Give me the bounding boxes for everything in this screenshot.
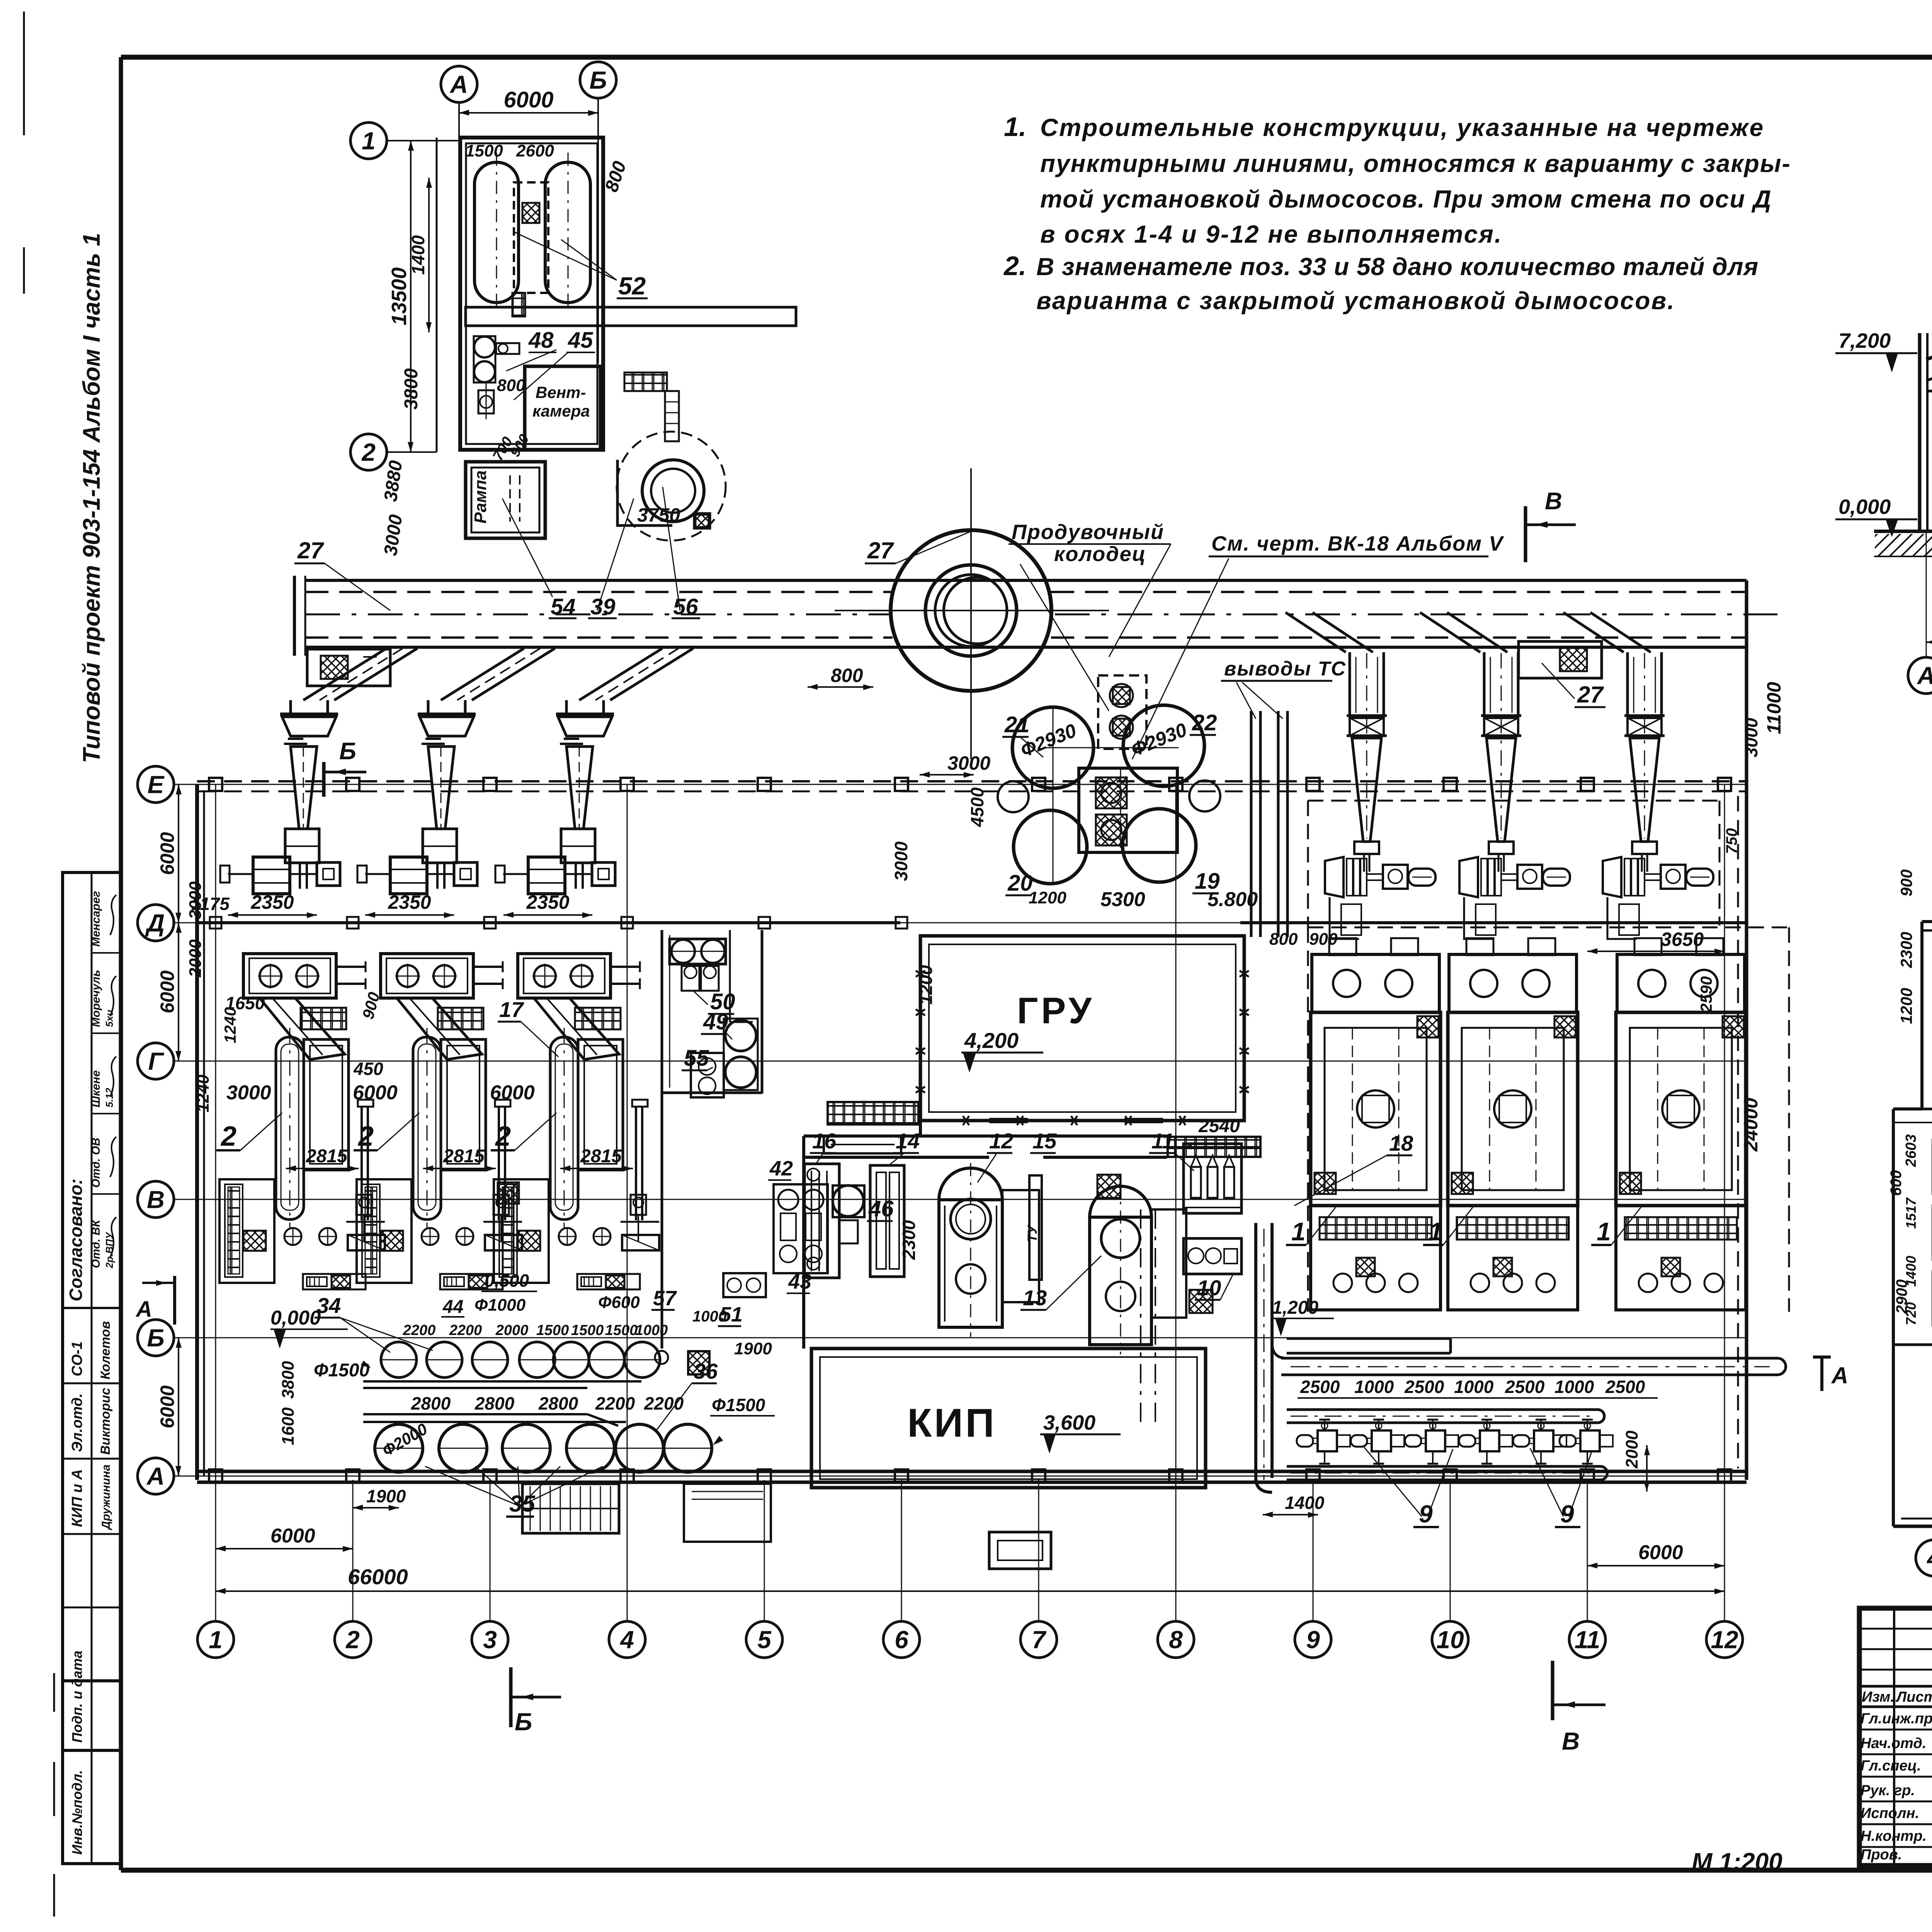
svg-text:3,600: 3,600: [1043, 1411, 1095, 1434]
svg-text:2815: 2815: [443, 1146, 485, 1167]
svg-text:6000: 6000: [353, 1082, 398, 1104]
svg-text:1500: 1500: [465, 141, 503, 160]
smoke exhauster unit: [1459, 857, 1478, 897]
section marker A right: [1813, 1355, 1831, 1359]
network pumps pos.9: [1297, 1435, 1313, 1447]
column axis circles: [197, 1621, 234, 1658]
svg-text:2300: 2300: [899, 1220, 919, 1260]
svg-text:13: 13: [1023, 1286, 1047, 1310]
svg-text:2.: 2.: [1003, 251, 1026, 281]
outer walls of boiler house: [195, 784, 199, 1480]
svg-text:55: 55: [684, 1046, 709, 1071]
bottom dim lines: [216, 1548, 353, 1549]
right cyclone collar: [1347, 714, 1387, 717]
svg-text:Строительные конструкции, указ: Строительные конструкции, указанные на ч…: [1040, 114, 1764, 141]
svg-text:Согласовано:: Согласовано:: [66, 1179, 86, 1301]
svg-text:А: А: [146, 1462, 165, 1490]
hatch bars: [828, 1102, 918, 1124]
svg-text:1600: 1600: [279, 1407, 298, 1445]
right cyclone cone: [1630, 738, 1659, 842]
svg-text:А: А: [1917, 662, 1932, 689]
svg-text:Викторис: Викторис: [98, 1388, 113, 1455]
svg-text:Колетов: Колетов: [98, 1321, 113, 1379]
furnace shaft: [276, 1037, 304, 1219]
svg-text:0,000: 0,000: [270, 1307, 321, 1329]
row axis lines: [174, 784, 1747, 785]
wall on row D: [197, 921, 900, 924]
svg-text:Д: Д: [145, 909, 165, 937]
deaerator vessel 13: [1090, 1186, 1151, 1217]
svg-text:1240: 1240: [221, 1007, 239, 1043]
hatch boxes 27 on beam: [307, 649, 390, 686]
svg-text:2: 2: [495, 1121, 511, 1152]
svg-text:КИП: КИП: [907, 1401, 997, 1446]
svg-text:27: 27: [297, 537, 324, 563]
svg-text:2350: 2350: [250, 891, 294, 913]
svg-text:См. черт. ВК-18 Альбом V: См. черт. ВК-18 Альбом V: [1211, 532, 1504, 555]
cyclone: [556, 713, 614, 716]
tanks row 2 pos.35: [375, 1424, 423, 1472]
V section marker top: [1524, 506, 1527, 562]
svg-text:2: 2: [220, 1121, 236, 1152]
cyclone support: [561, 829, 595, 863]
svg-text:Отд. ВК: Отд. ВК: [90, 1219, 102, 1268]
deaerator 22: [1123, 705, 1204, 786]
units 42 43: [774, 1184, 828, 1273]
right plan outer walls: [1920, 922, 1923, 1109]
svg-text:3000: 3000: [226, 1082, 271, 1104]
exterior stair below A wall: [522, 1484, 619, 1533]
svg-text:12: 12: [989, 1129, 1013, 1153]
svg-text:24000: 24000: [1740, 1098, 1762, 1152]
svg-text:2800: 2800: [411, 1393, 451, 1413]
svg-text:3800: 3800: [401, 368, 422, 410]
svg-text:Ф1500: Ф1500: [314, 1360, 370, 1381]
svg-text:1,200: 1,200: [1272, 1298, 1318, 1318]
svg-text:А: А: [1831, 1362, 1848, 1388]
svg-text:0,500: 0,500: [485, 1270, 529, 1291]
unit 16: [804, 1164, 839, 1278]
valve stand: [631, 1195, 646, 1215]
svg-text:13500: 13500: [388, 267, 411, 325]
svg-text:СО-1: СО-1: [69, 1341, 85, 1376]
svg-text:В знаменателе поз. 33 и 58 дан: В знаменателе поз. 33 и 58 дано количест…: [1036, 253, 1759, 281]
svg-text:4,200: 4,200: [964, 1028, 1019, 1053]
beam under tanks: [466, 307, 796, 326]
svg-text:9: 9: [1419, 1500, 1433, 1528]
svg-text:21: 21: [1004, 712, 1030, 737]
right cyclone cone: [1352, 738, 1381, 842]
svg-text:ГРУ: ГРУ: [1017, 990, 1095, 1031]
svg-text:800: 800: [1269, 930, 1298, 949]
svg-text:6000: 6000: [156, 832, 178, 875]
smoke duct chute: [472, 648, 555, 700]
side column: [498, 1106, 500, 1220]
foundation trapezoid: [1607, 897, 1637, 939]
svg-text:М 1:200: М 1:200: [1692, 1848, 1782, 1876]
unit 10: [1184, 1238, 1242, 1274]
cyclone bracket: [1354, 842, 1379, 854]
unit 11 bottles: [1184, 1144, 1242, 1213]
title block verticals left part: [1893, 1608, 1895, 1866]
svg-text:14: 14: [896, 1129, 920, 1153]
drawing border frame: [121, 55, 1932, 60]
main riser pipes: [1254, 1223, 1257, 1478]
bottom manifold: [1287, 1465, 1600, 1468]
inclined gas duct: [260, 998, 345, 1060]
svg-text:800: 800: [497, 376, 526, 395]
svg-text:Ф1000: Ф1000: [474, 1296, 526, 1315]
svg-text:39: 39: [590, 594, 616, 619]
deaerator 19: [1122, 809, 1196, 882]
svg-text:5.12: 5.12: [104, 1088, 115, 1107]
svg-text:1000: 1000: [692, 1308, 727, 1325]
deaerator room walls: [460, 138, 603, 450]
right area dashed enclosure: [1307, 927, 1309, 1312]
svg-text:2500: 2500: [1505, 1377, 1545, 1397]
svg-text:900: 900: [1309, 930, 1338, 949]
long supply pipe: [1281, 1357, 1777, 1360]
svg-text:27: 27: [1577, 682, 1604, 707]
svg-text:1: 1: [209, 1626, 223, 1653]
svg-text:Гл.спец.: Гл.спец.: [1861, 1758, 1921, 1774]
svg-text:9: 9: [1306, 1626, 1320, 1653]
svg-text:2350: 2350: [526, 891, 569, 913]
title block top small rows: [1859, 1628, 1932, 1630]
cyclone: [418, 713, 476, 716]
hatch marks corridor: [1097, 1175, 1121, 1198]
row axis circles: [138, 766, 174, 803]
section axis circles: [1908, 657, 1932, 694]
svg-text:5хи: 5хи: [104, 1010, 115, 1027]
svg-text:Н.контр.: Н.контр.: [1861, 1828, 1927, 1844]
bottom hatched strip: [577, 1274, 640, 1289]
tank walls: [363, 1380, 641, 1383]
svg-text:7,200: 7,200: [1838, 329, 1891, 352]
svg-text:1000: 1000: [1554, 1377, 1594, 1397]
boiler pumps: [422, 1228, 439, 1245]
svg-text:6000: 6000: [490, 1082, 535, 1104]
svg-text:56: 56: [673, 594, 698, 619]
svg-text:11: 11: [1151, 1129, 1174, 1153]
unit 44 cluster: [723, 1273, 766, 1297]
svg-text:1517: 1517: [1903, 1197, 1919, 1229]
svg-text:Инв.№подл.: Инв.№подл.: [69, 1770, 85, 1855]
svg-text:6000: 6000: [156, 1385, 178, 1428]
svg-text:1000: 1000: [635, 1322, 668, 1338]
cyclone: [280, 713, 338, 716]
smoke exhauster fan 39-56: [617, 432, 726, 541]
steam boilers pos.1: [1312, 954, 1439, 1012]
bottom hatched strip: [303, 1274, 366, 1289]
svg-text:10: 10: [1436, 1626, 1464, 1653]
svg-text:900: 900: [1897, 869, 1915, 896]
svg-text:3: 3: [483, 1626, 497, 1653]
svg-text:6000: 6000: [270, 1525, 315, 1547]
svg-text:42: 42: [769, 1157, 793, 1180]
svg-text:2200: 2200: [403, 1322, 436, 1338]
cyclone support: [423, 829, 457, 863]
svg-text:57: 57: [653, 1287, 677, 1310]
svg-text:Пров.: Пров.: [1861, 1847, 1902, 1863]
svg-text:2200: 2200: [644, 1393, 684, 1413]
svg-text:КИП и А: КИП и А: [69, 1469, 85, 1527]
svg-text:Г: Г: [148, 1047, 164, 1075]
svg-text:1: 1: [362, 127, 376, 155]
svg-text:Шкене: Шкене: [90, 1070, 102, 1107]
svg-text:11: 11: [1575, 1626, 1600, 1653]
svg-text:3000: 3000: [891, 841, 911, 881]
svg-text:Рук. гр.: Рук. гр.: [1861, 1782, 1915, 1799]
foundation trapezoid: [1464, 897, 1493, 939]
svg-text:2500: 2500: [1605, 1377, 1645, 1397]
stairs right of GRU: [1168, 1137, 1260, 1157]
svg-text:450: 450: [353, 1059, 383, 1079]
tank 52 left: [474, 162, 519, 303]
section marker A left: [173, 1276, 176, 1325]
svg-text:2200: 2200: [595, 1393, 635, 1413]
svg-text:Дружинина: Дружинина: [100, 1464, 112, 1531]
svg-text:43: 43: [788, 1270, 811, 1293]
svg-text:Е: Е: [148, 770, 165, 798]
svg-text:ТУ: ТУ: [1025, 1224, 1040, 1242]
svg-text:Б: Б: [589, 66, 607, 94]
svg-text:В: В: [147, 1185, 165, 1213]
deaerator 21: [1012, 707, 1094, 788]
unit 50 pumps: [670, 939, 726, 964]
svg-text:3650: 3650: [1661, 929, 1704, 950]
section walls: [1918, 333, 1922, 531]
svg-text:6: 6: [895, 1626, 908, 1653]
svg-text:2200: 2200: [449, 1322, 482, 1338]
svg-text:1000: 1000: [1454, 1377, 1494, 1397]
svg-text:2: 2: [361, 438, 376, 466]
svg-text:1200: 1200: [1897, 988, 1915, 1024]
svg-text:5: 5: [757, 1626, 772, 1653]
svg-text:3000: 3000: [947, 752, 990, 774]
svg-text:Лист: Лист: [1895, 1689, 1932, 1705]
cyclone support: [285, 829, 319, 863]
valve stand: [493, 1195, 509, 1215]
inclined gas duct: [534, 998, 619, 1060]
section marker B top: [322, 762, 326, 797]
economizer comb: [219, 1179, 274, 1283]
furnace shaft: [413, 1037, 441, 1219]
svg-text:Моречуль: Моречуль: [90, 970, 102, 1027]
svg-text:44: 44: [442, 1297, 463, 1317]
svg-text:12: 12: [1711, 1626, 1738, 1653]
right smoke duct drop: [1420, 612, 1480, 652]
corridor walls under GRU: [804, 1134, 1167, 1138]
svg-text:выводы ТС: выводы ТС: [1224, 658, 1346, 680]
svg-text:2: 2: [357, 1121, 374, 1152]
svg-text:2815: 2815: [306, 1146, 348, 1167]
conveyor gallery beam: [305, 579, 1747, 582]
svg-text:Эл.отд.: Эл.отд.: [69, 1393, 85, 1452]
svg-text:в осях 1-4 и 9-12 не выполняе: в осях 1-4 и 9-12 не выполняется.: [1040, 220, 1503, 248]
svg-text:2600: 2600: [516, 141, 554, 160]
vyvody TS pipes: [1250, 711, 1253, 937]
svg-text:1: 1: [1291, 1217, 1306, 1246]
right area dashed enclosure top: [1308, 800, 1719, 802]
svg-text:1400: 1400: [1285, 1493, 1325, 1513]
svg-text:18: 18: [1389, 1131, 1413, 1155]
svg-text:2350: 2350: [388, 891, 431, 913]
svg-text:Вент-: Вент-: [536, 383, 586, 401]
svg-text:4: 4: [619, 1626, 634, 1653]
center platform: [1079, 768, 1177, 852]
inclined gas duct: [397, 998, 482, 1060]
svg-text:7: 7: [1032, 1626, 1047, 1653]
bottom rooms strip: [1893, 1344, 1932, 1346]
boiler pumps: [284, 1228, 301, 1245]
svg-text:0,000: 0,000: [1838, 495, 1891, 519]
unit 14: [870, 1165, 904, 1277]
svg-text:2800: 2800: [474, 1393, 515, 1413]
smoke exhauster unit: [1603, 857, 1621, 897]
column axis lines: [215, 1480, 216, 1621]
svg-text:5.800: 5.800: [1207, 888, 1258, 911]
dosing room walls: [661, 930, 663, 1349]
svg-text:22: 22: [1192, 710, 1217, 735]
svg-text:3750: 3750: [637, 504, 680, 526]
svg-text:54: 54: [551, 594, 576, 619]
sub-plan axis 1 circle: [350, 122, 387, 159]
side circles: [998, 781, 1029, 812]
label 52 leader: [514, 232, 617, 280]
right smoke duct drop: [1563, 612, 1624, 652]
smoke duct chute: [334, 648, 417, 700]
GRU room walls: [920, 936, 1244, 1121]
svg-text:Ф1500: Ф1500: [712, 1395, 765, 1415]
smoke duct chute: [610, 648, 693, 700]
svg-text:1.: 1.: [1004, 112, 1026, 142]
cyclone bracket: [1489, 842, 1514, 854]
KIP room: [811, 1349, 1206, 1488]
svg-text:А: А: [135, 1297, 152, 1322]
economizer comb: [494, 1179, 549, 1283]
unit 46: [833, 1185, 864, 1216]
svg-text:2815: 2815: [580, 1146, 622, 1167]
svg-text:1000: 1000: [1354, 1377, 1394, 1397]
svg-text:52: 52: [618, 272, 646, 300]
svg-text:Гл.инж.пр.: Гл.инж.пр.: [1861, 1711, 1932, 1727]
hot water boiler unit 2: [518, 954, 611, 998]
svg-text:Подп. и дата: Подп. и дата: [69, 1651, 85, 1743]
right cyclone collar: [1624, 714, 1665, 717]
svg-text:1240: 1240: [194, 1075, 213, 1112]
svg-text:48: 48: [528, 328, 554, 353]
svg-text:2500: 2500: [1300, 1377, 1340, 1397]
ramp room: [466, 462, 545, 538]
economizer comb: [357, 1179, 412, 1283]
right cyclone collar: [1481, 714, 1521, 717]
stack foundation circle: [891, 530, 1051, 691]
svg-text:3800: 3800: [279, 1361, 298, 1399]
svg-text:1500: 1500: [571, 1322, 604, 1338]
svg-text:2000: 2000: [495, 1322, 529, 1338]
svg-text:1500: 1500: [605, 1322, 638, 1338]
svg-text:6000: 6000: [156, 970, 178, 1013]
svg-text:6000: 6000: [1638, 1541, 1683, 1564]
svg-text:2800: 2800: [538, 1393, 578, 1413]
convective block: [578, 1039, 623, 1170]
sub-plan axis 2 circle: [350, 434, 387, 470]
small pump 45: [478, 390, 494, 413]
agreement table strip: [63, 872, 121, 1864]
unit 15 TU bar: [1029, 1175, 1042, 1280]
svg-text:6000: 6000: [503, 87, 553, 112]
svg-text:варианта с закрытой установкой: варианта с закрытой установкой дымососов…: [1036, 287, 1675, 315]
svg-text:1900: 1900: [366, 1486, 406, 1506]
svg-text:2300: 2300: [1897, 932, 1915, 968]
svg-text:Изм.: Изм.: [1862, 1689, 1895, 1705]
tank 52 right: [545, 162, 590, 303]
fuel tanks row 1 pos.34: [381, 1342, 417, 1378]
svg-text:15: 15: [1032, 1129, 1057, 1153]
valve stand: [356, 1195, 372, 1215]
svg-text:5300: 5300: [1100, 888, 1145, 911]
svg-text:1: 1: [1429, 1217, 1443, 1246]
svg-text:Б: Б: [515, 1708, 532, 1736]
sub-plan axis B circle: [580, 62, 616, 98]
svg-text:2590: 2590: [1697, 976, 1715, 1013]
exit structure below KIP: [989, 1532, 1051, 1569]
svg-text:2: 2: [345, 1626, 360, 1653]
platform between tanks: [514, 182, 548, 293]
title block outer: [1859, 1608, 1932, 1866]
deaerator 20: [1014, 810, 1087, 884]
svg-text:600: 600: [1888, 1170, 1905, 1196]
svg-text:1400: 1400: [408, 235, 428, 275]
svg-text:Типовой проект 903-1-154 Аль: Типовой проект 903-1-154 Альбом I часть …: [78, 233, 105, 763]
svg-text:Ф600: Ф600: [598, 1293, 640, 1312]
vent chamber room: [525, 366, 600, 450]
foundation trapezoid: [1330, 897, 1359, 939]
svg-text:11000: 11000: [1763, 682, 1785, 734]
svg-text:49: 49: [703, 1009, 728, 1034]
svg-text:36: 36: [694, 1359, 718, 1383]
svg-text:Б: Б: [339, 738, 356, 765]
side column: [635, 1106, 637, 1220]
title rows left: [1859, 1729, 1932, 1731]
svg-text:66000: 66000: [348, 1565, 408, 1589]
section marker V bottom: [1551, 1661, 1554, 1720]
svg-text:1: 1: [1597, 1217, 1611, 1246]
svg-text:В: В: [1562, 1727, 1580, 1755]
overhead pipe across KIP: [1140, 1209, 1141, 1430]
boiler drum assemblies: [253, 857, 290, 894]
svg-text:1900: 1900: [734, 1339, 772, 1358]
svg-text:Исполн.: Исполн.: [1861, 1805, 1919, 1821]
side column: [361, 1106, 363, 1220]
svg-text:Менсарег: Менсарег: [90, 891, 102, 947]
deaerator vessel 12: [939, 1168, 1002, 1200]
svg-text:колодец: колодец: [1054, 543, 1146, 566]
svg-text:1400: 1400: [1903, 1256, 1919, 1287]
svg-text:2500: 2500: [1404, 1377, 1444, 1397]
bottom hatched strip: [440, 1274, 503, 1289]
section marker B bottom: [509, 1667, 513, 1727]
valve squares on gallery: [1098, 675, 1146, 749]
svg-text:той установкой дымососов. При: той установкой дымососов. При этом стена…: [1040, 185, 1772, 213]
left vertical dims: [178, 784, 179, 923]
roof arch: [1926, 313, 1932, 359]
svg-text:27: 27: [867, 537, 894, 563]
cyclone bracket: [1632, 842, 1657, 854]
svg-text:17: 17: [499, 997, 524, 1022]
hot water boiler unit 2: [381, 954, 473, 998]
